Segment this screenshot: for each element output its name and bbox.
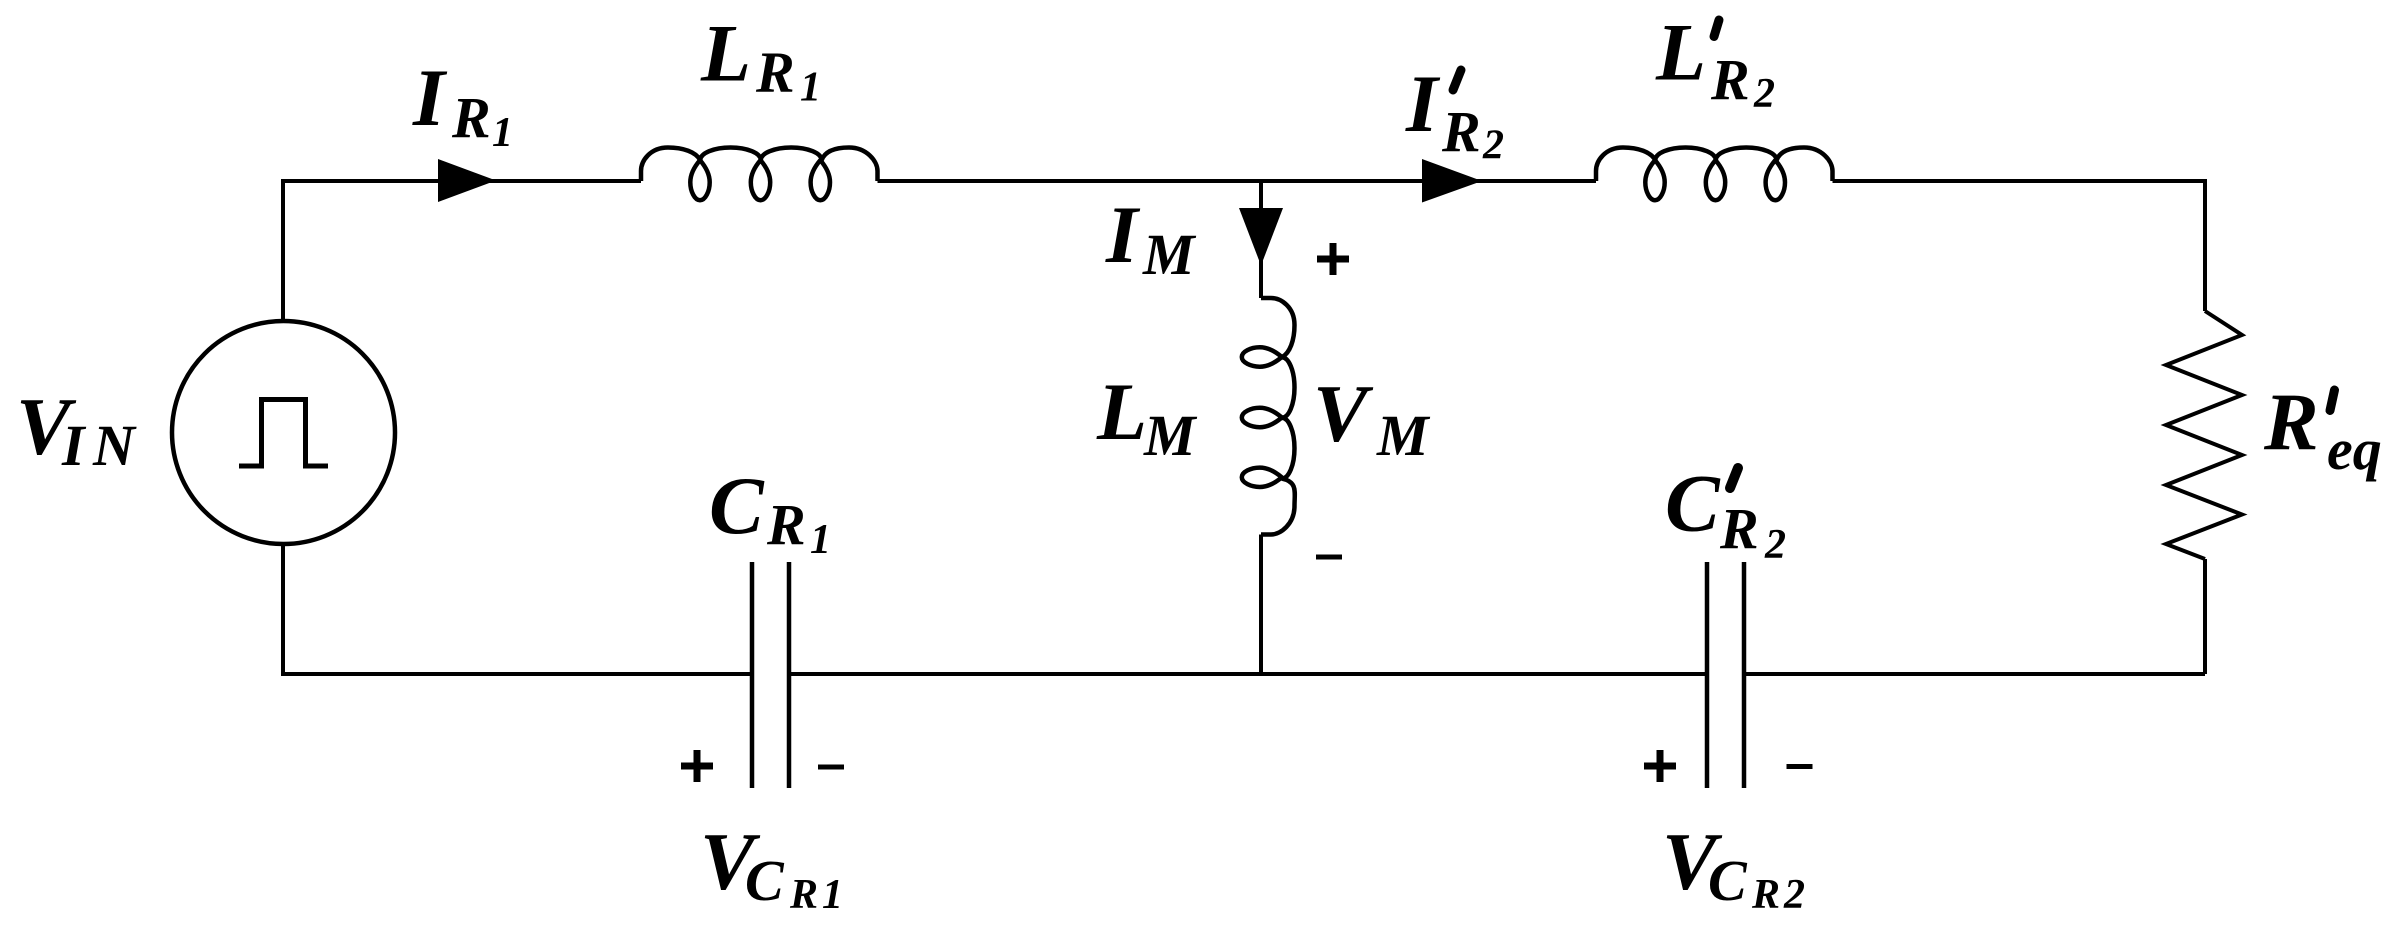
inductor L_M coil loops (vertical) [1242, 347, 1282, 487]
svg-text:V: V [1313, 368, 1374, 459]
svg-text:R: R [1719, 496, 1759, 561]
wire top-middle from L_R1 to L'_R2 [878, 179, 1597, 183]
svg-text:C: C [745, 848, 785, 913]
wire right below resistor [2203, 559, 2207, 674]
inductor L_R1 coil humps [641, 148, 878, 182]
plus sign at L_M top [1317, 243, 1349, 275]
current arrow I_M (down) [1239, 208, 1283, 266]
svg-text:R: R [766, 492, 806, 557]
svg-text:L: L [1655, 7, 1706, 98]
inductor L_R1 coil loops [690, 160, 830, 200]
svg-text:M: M [1143, 403, 1198, 468]
svg-text:R: R [451, 85, 491, 150]
resistor R'_eq zigzag [2166, 311, 2242, 559]
svg-text:L: L [1096, 366, 1147, 457]
svg-text:L: L [700, 8, 751, 99]
inductor L_M coil humps (vertical) [1261, 298, 1295, 535]
inductor L'_R2 coil loops [1645, 160, 1785, 200]
wire top-left from source to L_R1 [283, 181, 641, 323]
pulse waveform glyph inside source [239, 400, 328, 467]
prime of R'_eq [2330, 390, 2335, 411]
svg-text:I: I [1105, 189, 1141, 280]
plus sign of C_R1 [681, 750, 713, 782]
minus sign of C'_R2 [1787, 764, 1813, 769]
prime of I'_R2 [1453, 70, 1461, 90]
prime of C'_R2 [1730, 468, 1738, 488]
minus sign at L_M bottom [1316, 555, 1342, 560]
prime of L'_R2 [1714, 20, 1719, 37]
svg-text:M: M [1142, 222, 1197, 287]
current arrow I'_R2 [1422, 159, 1482, 203]
svg-text:C: C [1665, 458, 1721, 549]
svg-text:C: C [1708, 848, 1748, 913]
capacitor C'_R2 right plate [1742, 562, 1747, 788]
svg-text:R: R [755, 40, 795, 105]
svg-text:R: R [1751, 872, 1780, 918]
current arrow I_R1 [438, 159, 496, 202]
svg-text:R: R [1710, 47, 1750, 112]
svg-text:R: R [1441, 99, 1481, 164]
svg-text:2: 2 [1783, 872, 1805, 918]
plus sign of C'_R2 [1644, 750, 1676, 782]
capacitor C_R1 right plate [787, 562, 792, 788]
svg-text:1: 1 [492, 110, 513, 156]
svg-text:I: I [61, 413, 87, 478]
capacitor C_R1 left plate [750, 562, 755, 788]
svg-text:R: R [789, 872, 818, 918]
wire bottom-left segment [283, 544, 752, 674]
wire bottom-middle segment [789, 672, 1707, 676]
svg-text:N: N [92, 413, 137, 478]
svg-text:eq: eq [2327, 417, 2382, 482]
svg-text:C: C [709, 460, 765, 551]
wire middle branch upper [1259, 181, 1263, 298]
wire top-right from L'_R2 to right corner [1833, 181, 2206, 311]
svg-text:M: M [1376, 403, 1431, 468]
svg-text:2: 2 [1482, 123, 1504, 169]
svg-text:1: 1 [800, 65, 821, 111]
voltage source V_IN circle [172, 321, 395, 544]
wire middle branch lower [1259, 535, 1263, 675]
svg-text:1: 1 [810, 517, 831, 563]
svg-text:2: 2 [1753, 71, 1775, 117]
capacitor C'_R2 left plate [1705, 562, 1710, 788]
svg-text:I: I [1405, 58, 1441, 149]
svg-text:2: 2 [1764, 522, 1786, 568]
svg-text:1: 1 [822, 872, 843, 918]
wire bottom-right segment [1744, 672, 2205, 676]
inductor L'_R2 coil humps [1596, 147, 1833, 181]
svg-text:R: R [2263, 376, 2319, 467]
svg-text:I: I [412, 52, 448, 143]
minus sign of C_R1 [818, 765, 844, 770]
